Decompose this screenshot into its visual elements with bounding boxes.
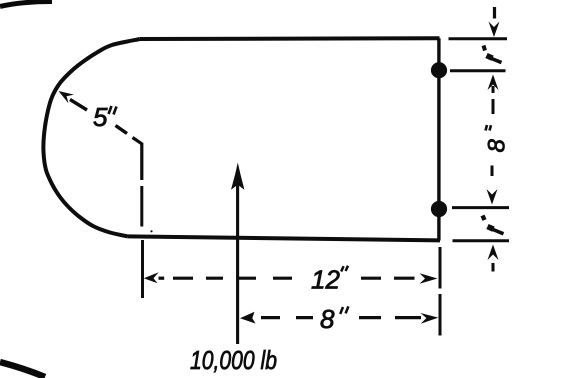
dim 8in horizontal: right arrowhead [420,313,438,324]
dim 1in lower: up arrowhead under bottom line [488,245,499,261]
svg-text:10,000 lb: 10,000 lb [190,345,277,375]
rivet dot upper [431,62,447,78]
scan artifact top-left border [0,2,52,7]
extension line below plate left (12in) [141,240,144,298]
extension line below plate right [439,247,442,336]
radius leader arrowhead at arc [59,91,74,103]
dim 8in vertical: stem and dash [492,86,495,114]
dim 12in: left arrowhead [144,272,159,283]
speck on bottom edge [150,230,152,232]
dim 12in: mini dash after head [159,277,165,280]
scan artifact bottom-left border [0,362,45,377]
label 1 inch upper (rotated numeral strokes) [484,46,486,51]
radius leader corner dash [133,138,142,181]
dim 1in upper: down arrowhead [489,22,500,38]
dim 8in horizontal: left arrowhead [240,312,256,324]
plate right edge [437,38,440,240]
dim 8in horizontal: dashed line right part [359,316,421,319]
dim 12in: right arrowhead [420,273,438,284]
label 12 inch marks [341,266,348,272]
radius leader dash b [116,126,128,134]
radius leader dash a [70,100,87,111]
plate top edge [140,36,440,41]
label 8 inch horizontal marks [340,306,348,314]
svg-text:8: 8 [484,139,511,153]
force arrowhead [231,163,244,190]
dim 12in: dashed line right part [361,277,415,280]
dim 12in: dashed line left part [173,277,292,280]
radius center dashed line (vertical) [140,186,143,227]
rivet dot lower [431,201,447,217]
force arrow shaft 10,000 lb [236,184,239,344]
plate semicircular left end, radius 5" [43,39,140,237]
svg-text:5: 5 [93,102,108,132]
dim 1in upper: dashed lead above [493,7,496,19]
dim 1in lower: dash below [492,263,495,272]
dim 8in vertical: lower dash and down arrowhead [491,166,494,177]
extension line right of lower dot [452,206,509,209]
dim 8in vertical: up arrowhead under upper dot line [488,75,499,91]
dim 8in horizontal: dashed line left part [261,316,313,319]
svg-text:8: 8 [320,304,335,334]
plate bottom edge [128,236,440,240]
extension line right of top edge [449,37,508,40]
label 8 inch rotated marks [486,125,492,131]
svg-text:12: 12 [311,265,340,295]
extension line right of bottom edge [453,239,510,242]
label 5 inch marks [109,106,117,115]
label 1 inch lower (rotated numeral strokes) [483,216,485,221]
extension line right of upper dot [450,69,506,72]
